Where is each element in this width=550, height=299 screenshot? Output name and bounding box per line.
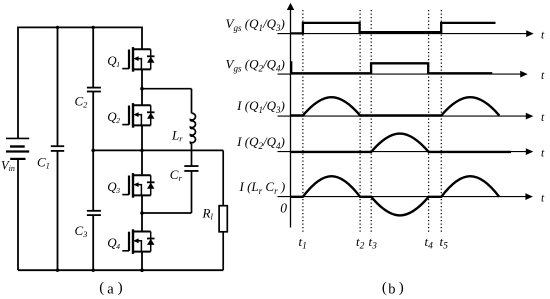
wire C1 rail lower	[57, 151, 59, 270]
svg-text:Cr: Cr	[170, 167, 183, 183]
wire switch rail seg1	[141, 27, 143, 50]
wire C2C3 rail lower	[92, 215, 94, 270]
node top C2 junction	[92, 26, 95, 29]
wire switch rail seg3	[141, 125, 143, 175]
svg-text:Q3: Q3	[107, 179, 120, 195]
node Q1Q2 junction	[140, 87, 144, 91]
svg-text:t: t	[541, 112, 545, 124]
waveform I Q1/Q3	[291, 97, 499, 115]
wire mid bus	[93, 149, 223, 151]
wire switch rail seg5	[141, 252, 143, 271]
wire Lr to Cr	[191, 144, 193, 166]
node t3 dashed marker	[370, 10, 372, 233]
svg-text:t3: t3	[369, 234, 378, 251]
capacitor C3	[87, 211, 101, 215]
wire Cr to Q3Q4 node	[142, 212, 192, 214]
svg-text:Vgs (Q2/Q4): Vgs (Q2/Q4)	[226, 56, 285, 73]
wire C2C3 rail upper	[92, 27, 94, 87]
svg-text:t4: t4	[425, 234, 434, 251]
svg-text:Rl: Rl	[202, 206, 214, 222]
wire top bus	[18, 26, 142, 28]
waveform y-axis	[287, 3, 294, 228]
svg-text:(b): (b)	[382, 280, 404, 298]
transistor Q1	[122, 47, 154, 72]
svg-text:Vgs (Q1/Q3): Vgs (Q1/Q3)	[226, 16, 285, 33]
waveform Vgs Q2/Q4	[291, 61, 492, 73]
axis row1 t	[277, 30, 533, 37]
wire Lr branch upper	[191, 89, 193, 114]
transistor Q4	[122, 229, 154, 254]
svg-text:t2: t2	[356, 234, 365, 251]
node bottom C3 junction	[92, 269, 95, 272]
wire C1 rail upper	[57, 27, 59, 146]
svg-text:Q2: Q2	[107, 109, 120, 125]
waveform I Q2/Q4	[291, 134, 511, 152]
battery Vin	[6, 138, 29, 159]
wire bottom bus	[18, 269, 223, 271]
axis row5 t	[278, 193, 533, 200]
node top C1 junction	[56, 26, 59, 29]
svg-text:Q4: Q4	[107, 235, 120, 251]
transistor Q3	[122, 173, 154, 198]
wire C2C3 rail middle	[92, 92, 94, 211]
wire switch rail seg2	[141, 69, 143, 105]
svg-text:C1: C1	[37, 155, 50, 171]
axis row2 t	[278, 71, 528, 78]
svg-text:I (Q2/Q4): I (Q2/Q4)	[236, 134, 285, 151]
svg-text:0: 0	[280, 200, 287, 215]
node t2 dashed marker	[359, 10, 361, 233]
svg-text:t: t	[541, 193, 545, 205]
wire Cr branch lower	[191, 171, 193, 213]
svg-text:C3: C3	[75, 223, 88, 239]
node bottom rail junction	[140, 268, 144, 272]
node t4 dashed marker	[428, 10, 430, 233]
svg-text:t: t	[541, 70, 545, 82]
node t1 dashed marker	[302, 10, 304, 233]
inductor Lr	[190, 113, 195, 143]
axis row3 t	[278, 113, 534, 120]
axis row4 t	[278, 148, 534, 155]
wire Rl branch upper	[222, 150, 224, 205]
svg-text:I (Q1/Q3): I (Q1/Q3)	[236, 98, 285, 115]
svg-text:(a): (a)	[99, 280, 122, 298]
node t5 dashed marker	[440, 10, 442, 233]
svg-text:I (Lr Cr ): I (Lr Cr )	[238, 179, 285, 196]
node Q3Q4 junction	[140, 211, 144, 215]
svg-text:C2: C2	[75, 94, 89, 110]
waveform I LrCr	[291, 176, 499, 215]
svg-text:Vin: Vin	[1, 158, 15, 173]
capacitor C2	[87, 88, 101, 92]
capacitor Cr	[184, 166, 198, 171]
svg-text:t: t	[541, 148, 545, 160]
transistor Q2	[122, 103, 154, 128]
svg-text:t: t	[541, 30, 545, 42]
svg-text:t5: t5	[440, 234, 449, 251]
resistor Rl	[219, 206, 227, 232]
node bottom C1 junction	[56, 269, 59, 272]
capacitor C1	[51, 146, 64, 151]
wire Q1Q2 node to Lr	[142, 88, 192, 90]
waveform Vgs Q1/Q3	[291, 23, 496, 34]
svg-text:t1: t1	[299, 234, 307, 251]
wire Rl branch lower	[222, 232, 224, 270]
node mid-rail junction	[140, 149, 144, 153]
svg-text:Q1: Q1	[107, 53, 120, 69]
svg-text:Lr: Lr	[171, 128, 183, 144]
wire left rail upper	[17, 27, 19, 139]
wire switch rail seg4	[141, 195, 143, 231]
node mid-left junction	[91, 149, 95, 153]
wire left rail lower	[17, 159, 19, 270]
